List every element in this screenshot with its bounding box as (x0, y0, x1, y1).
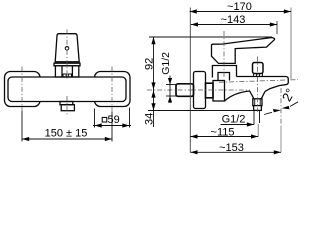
svg-text:~115: ~115 (211, 126, 235, 138)
svg-text:150 ± 15: 150 ± 15 (45, 128, 88, 140)
svg-text:~170: ~170 (227, 1, 252, 13)
svg-text:G1/2: G1/2 (160, 52, 172, 75)
svg-text:59: 59 (108, 114, 120, 126)
svg-text:34: 34 (144, 113, 156, 125)
svg-text:~143: ~143 (221, 14, 246, 26)
svg-text:92: 92 (144, 58, 156, 70)
svg-text:~153: ~153 (219, 142, 244, 154)
svg-text:G1/2: G1/2 (222, 114, 246, 126)
